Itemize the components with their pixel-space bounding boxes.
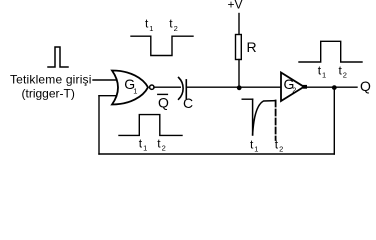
- label (trigger-T): [22, 87, 75, 101]
- svg-text:2: 2: [162, 144, 166, 153]
- wire feedback to G1 lower input: [99, 95, 120, 97]
- svg-text:Q: Q: [360, 78, 371, 94]
- svg-text:2: 2: [292, 86, 296, 95]
- svg-text:Q: Q: [158, 95, 169, 111]
- label t2 (output waveform): [339, 63, 347, 79]
- input waveform (top, negative pulse): [131, 36, 193, 55]
- trigger pulse icon: [48, 47, 68, 67]
- junction dot on output wire: [332, 85, 337, 90]
- Qbar waveform (below G1, positive pulse): [119, 115, 182, 136]
- svg-text:2: 2: [174, 24, 178, 33]
- svg-text:(trigger-T): (trigger-T): [22, 87, 75, 101]
- label G1: [124, 76, 137, 95]
- wire +V to resistor: [238, 14, 240, 35]
- wire resistor to node: [238, 60, 240, 88]
- svg-text:C: C: [183, 95, 193, 111]
- label t1 (output waveform): [318, 63, 326, 79]
- label Q (output): [360, 78, 371, 94]
- resistor R body: [236, 35, 242, 60]
- capacitor node waveform: initial level: [242, 98, 252, 100]
- capacitor C straight plate: [185, 80, 187, 98]
- nor gate G1: [112, 71, 148, 105]
- wire trigger input to G1 upper input: [93, 79, 120, 81]
- label t2 (capacitor waveform): [275, 137, 283, 153]
- wire capacitor to node: [186, 86, 281, 88]
- label t2 (Qbar waveform): [157, 137, 165, 153]
- label R: [247, 39, 257, 55]
- capacitor node waveform: drop at t1: [252, 99, 254, 135]
- capacitor C curved plate: [179, 78, 184, 100]
- output junction square at G2 output: [303, 85, 307, 89]
- svg-text:+V: +V: [228, 0, 243, 12]
- node Qbar label: [158, 95, 169, 111]
- svg-text:1: 1: [133, 86, 137, 95]
- label t1 (input waveform): [145, 17, 153, 33]
- svg-text:1: 1: [254, 145, 258, 154]
- label t2 (input waveform): [169, 17, 177, 33]
- feedback wire bottom horizontal: [99, 153, 334, 155]
- label t1 (Qbar waveform): [139, 137, 147, 153]
- label t1 (capacitor waveform): [250, 137, 258, 153]
- feedback wire right vertical: [333, 87, 335, 154]
- capacitor node waveform: exponential charge curve: [253, 101, 276, 135]
- label Tetikleme girisi: [10, 73, 92, 87]
- svg-text:Tetikleme girişi: Tetikleme girişi: [10, 73, 92, 87]
- overbar of Qbar: [158, 93, 168, 95]
- svg-text:2: 2: [343, 71, 347, 80]
- feedback wire left vertical: [98, 96, 100, 154]
- svg-text:1: 1: [322, 71, 326, 80]
- junction node dot (R/C junction): [237, 85, 242, 90]
- wire G2 output to Q: [307, 86, 358, 88]
- output waveform (top right, positive pulse): [299, 41, 362, 62]
- wire G1 output to capacitor: [154, 86, 180, 88]
- label +V: [228, 0, 243, 12]
- svg-text:R: R: [247, 39, 257, 55]
- svg-text:1: 1: [143, 144, 147, 153]
- inversion bubble G1: [150, 85, 154, 89]
- dashed line at t2 (capacitor waveform): [275, 101, 277, 141]
- label C: [183, 95, 193, 111]
- svg-text:1: 1: [149, 24, 153, 33]
- svg-text:2: 2: [279, 145, 283, 154]
- buffer gate G2: [281, 73, 304, 102]
- label G2: [284, 76, 297, 95]
